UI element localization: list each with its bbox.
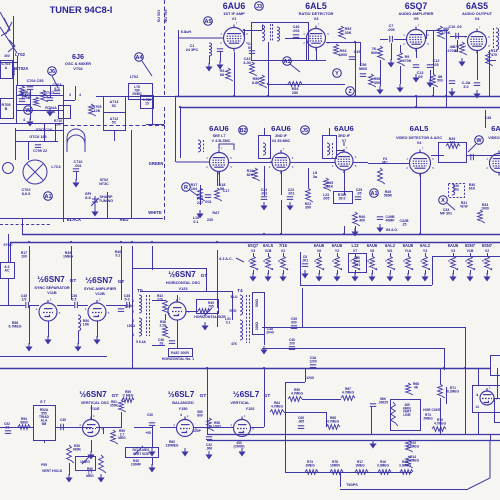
wire (96, 427, 122, 429)
wire det drop (268, 84, 270, 96)
capacitor C709 (35, 145, 41, 148)
wire right margin (497, 368, 499, 398)
svg-text:10K: 10K (83, 323, 90, 327)
svg-text:GT: GT (118, 279, 125, 285)
wire (400, 45, 402, 52)
svg-text:2040: 2040 (266, 330, 274, 334)
svg-text:39.0: 39.0 (339, 197, 346, 201)
svg-text:6SQ7: 6SQ7 (405, 1, 428, 11)
resistor R68 4K (406, 383, 413, 395)
wire horiz size drop (217, 311, 219, 327)
ground R60 (98, 474, 103, 482)
svg-text:61K: 61K (469, 187, 476, 191)
svg-text:LINE: LINE (403, 413, 410, 417)
ground V5 (413, 74, 418, 82)
svg-text:3: 3 (332, 259, 334, 263)
wire (30, 90, 32, 104)
small tube circle (3, 163, 14, 174)
wire R65 drop (326, 412, 328, 427)
svg-text:L13: L13 (351, 243, 359, 248)
junction bus x132 (131, 241, 133, 243)
wire input V1 (178, 30, 180, 96)
junction bus2 x344 (343, 233, 345, 235)
ground V11B (45, 336, 50, 344)
svg-text:4: 4 (287, 267, 289, 271)
resistor R17 (198, 188, 205, 201)
wire (446, 96, 448, 107)
heater resistor 6AU6 (451, 256, 458, 270)
svg-text:V5: V5 (414, 16, 420, 21)
svg-text:200Ω: 200Ω (255, 322, 259, 331)
svg-text:6: 6 (278, 259, 280, 263)
circled W video (475, 136, 484, 145)
box right margin (495, 399, 500, 423)
svg-text:VIDEO: VIDEO (488, 136, 500, 140)
svg-text:MC: MC (382, 161, 388, 165)
ground R7 (377, 86, 382, 94)
ground heater (467, 273, 472, 281)
svg-text:LT02: LT02 (130, 75, 138, 79)
wire (236, 258, 244, 262)
svg-text:6AL2: 6AL2 (420, 243, 431, 248)
wire B+ drop (446, 30, 448, 96)
wire left col 2 (8, 278, 10, 305)
tube pin numbers (206, 147, 232, 170)
wire (308, 168, 310, 188)
wire plate V5 (426, 30, 428, 39)
coil L30 dashed box (449, 184, 465, 198)
svg-text:.25: .25 (402, 223, 407, 227)
wire L78 down (152, 99, 154, 124)
svg-text:15: 15 (145, 102, 149, 106)
circled Z (346, 87, 355, 96)
tube Y150 (177, 417, 194, 437)
heater resistor 7/16 (281, 256, 288, 270)
svg-text:B3 A.G.: B3 A.G. (386, 228, 398, 232)
resistor R19 (253, 168, 260, 181)
bus mid3 (262, 327, 465, 329)
wire V3 cathode (316, 48, 318, 60)
wire (16, 305, 25, 307)
tube 6AU6 2nd IF (272, 150, 290, 174)
svg-text:V3: V3 (451, 249, 455, 253)
wire right (485, 110, 487, 128)
svg-text:3: 3 (429, 267, 431, 271)
capacitor C15 (474, 83, 480, 86)
svg-text:47K: 47K (231, 342, 238, 346)
capacitor C3A (310, 365, 316, 368)
svg-text:.05: .05 (357, 192, 362, 196)
capacitor C66 (370, 404, 376, 407)
core (493, 28, 495, 50)
ground heater (352, 273, 357, 281)
wire tuner bottom1 (0, 123, 63, 125)
ground C2 (217, 61, 222, 69)
wire (30, 104, 32, 120)
wire cathode V11E (91, 440, 93, 452)
ground R9 (397, 84, 402, 92)
wire (48, 321, 50, 337)
svg-text:6A: 6A (491, 124, 500, 133)
wire V3 lower (306, 60, 326, 62)
svg-text:½6SL7: ½6SL7 (233, 390, 260, 399)
tube pin numbers (165, 297, 190, 315)
svg-text:6SN7: 6SN7 (482, 243, 493, 248)
ground (26, 343, 31, 351)
svg-text:V7: V7 (353, 249, 357, 253)
svg-text:6AL2: 6AL2 (385, 243, 396, 248)
svg-text:T4: T4 (237, 288, 243, 293)
ground trimmer (92, 208, 97, 216)
svg-text:.03: .03 (159, 341, 164, 345)
svg-text:R487 200R: R487 200R (171, 351, 189, 355)
ground R58 (206, 451, 211, 459)
wire T3 bottom link (152, 345, 165, 347)
capacitor C16 (205, 195, 211, 198)
resistor R9 (398, 52, 405, 66)
tube 6J6 envelope arch (67, 135, 85, 152)
svg-text:5: 5 (257, 267, 259, 271)
ground V11E (88, 451, 93, 459)
T4 core (246, 295, 248, 343)
svg-text:SYNC: SYNC (3, 243, 13, 247)
tube V12B (88, 300, 106, 321)
circled A5 (204, 17, 213, 26)
svg-text:10K: 10K (55, 122, 62, 126)
capacitor C12 (427, 65, 433, 68)
capacitor C36 (75, 302, 78, 308)
wire mid left (0, 356, 107, 358)
svg-text:104: 104 (191, 187, 198, 191)
svg-text:2MEG: 2MEG (423, 416, 433, 420)
wire v121 (121, 246, 123, 300)
core T2 (270, 24, 272, 42)
svg-text:W1: W1 (387, 249, 392, 253)
tube V11B (39, 300, 57, 321)
svg-text:5C: 5C (112, 121, 117, 125)
wire vert osc in (0, 427, 33, 429)
wire L9 top (329, 128, 331, 135)
svg-text:3: 3 (314, 259, 316, 263)
ground tuner2 (47, 108, 52, 116)
box R708 (1, 99, 14, 119)
resistor R28 (378, 168, 385, 184)
svg-text:SU 921: SU 921 (157, 10, 161, 22)
svg-text:1MEG: 1MEG (305, 463, 315, 467)
svg-text:.001: .001 (288, 192, 295, 196)
junction bus2 x281 (280, 233, 282, 235)
wire R7 down (380, 60, 382, 86)
wire (28, 141, 30, 160)
svg-text:350: 350 (374, 81, 380, 85)
ground C24 (261, 202, 266, 210)
wire (114, 130, 116, 141)
pointer wire (290, 64, 300, 72)
svg-text:6AU6: 6AU6 (223, 1, 246, 11)
svg-text:TUNER 94C8-I: TUNER 94C8-I (50, 5, 113, 15)
svg-text:HORIZONTAL SIZE: HORIZONTAL SIZE (194, 315, 226, 319)
ground Y152 (239, 448, 244, 456)
tube pin numbers (464, 26, 490, 49)
svg-text:200: 200 (289, 341, 295, 345)
svg-text:6: 6 (272, 267, 274, 271)
svg-text:6AU6: 6AU6 (448, 243, 459, 248)
svg-text:6.3 A.C.: 6.3 A.C. (219, 257, 233, 261)
resistor R67 (341, 396, 355, 401)
junction bus x29 (28, 241, 30, 243)
wire V123 grid (177, 295, 179, 302)
svg-text:T60PS: T60PS (346, 483, 358, 487)
tube V123 (168, 299, 186, 320)
svg-text:J6: J6 (49, 69, 55, 75)
wire tuner shelf1 (16, 95, 63, 97)
bus mid1 (22, 234, 500, 236)
ground (none) (370, 440, 375, 448)
box right edge (491, 356, 500, 376)
svg-text:0.5: 0.5 (72, 298, 77, 302)
tube pin numbers (220, 22, 248, 46)
T4 secondary (240, 320, 243, 340)
svg-text:RED: RED (230, 309, 238, 313)
tube AFC (480, 388, 494, 405)
wire v29 (29, 246, 31, 302)
box T7 TRIAD (34, 406, 56, 441)
capacitor C52 (5, 431, 11, 434)
svg-text:5: 5 (412, 267, 414, 271)
ground heater (484, 273, 489, 281)
resistor R40 (353, 212, 360, 226)
junction bus top x433 (432, 95, 434, 97)
svg-text:3: 3 (465, 259, 467, 263)
capacitor C38 (127, 302, 130, 308)
wire 2nd IF drop (281, 200, 283, 234)
svg-text:J5: J5 (302, 128, 308, 134)
wire OT (487, 60, 496, 62)
svg-text:3: 3 (323, 267, 325, 271)
wire (107, 192, 109, 218)
resistor R10 (438, 26, 445, 39)
wire R9 down (400, 66, 402, 84)
svg-text:V12B: V12B (95, 292, 105, 296)
wire plate V1 (244, 30, 246, 38)
wire 6J6 grid (63, 100, 75, 102)
svg-text:4K: 4K (414, 385, 419, 389)
resistor R64 (270, 410, 284, 415)
peaking coil R29 (446, 144, 460, 149)
wire Z drop (355, 42, 357, 96)
svg-text:6.8uH: 6.8uH (181, 30, 191, 34)
wire bottom (340, 489, 468, 491)
wire (478, 368, 480, 385)
coil R50 choke (78, 315, 81, 331)
wire det out (326, 42, 360, 44)
antenna zig (8, 40, 15, 52)
pointer (190, 190, 198, 196)
svg-text:4.7MEG: 4.7MEG (342, 390, 355, 394)
svg-text:V4 39.6MC: V4 39.6MC (272, 139, 291, 143)
junction (267, 83, 269, 85)
ground R40 (352, 228, 357, 236)
junction y368 x465 (464, 367, 466, 369)
tube pin numbers (403, 24, 429, 47)
svg-text:10M00: 10M00 (330, 463, 340, 467)
svg-text:1200: 1200 (309, 359, 317, 363)
ground C22 (287, 202, 292, 210)
wire (264, 130, 266, 135)
wire Y drop (355, 84, 357, 96)
wire T4 right (264, 292, 266, 345)
tube pin numbers (230, 414, 254, 431)
wire (97, 321, 99, 337)
pointer W (468, 144, 476, 152)
junction bus top x416 (415, 95, 417, 97)
svg-text:.001: .001 (74, 164, 81, 168)
wire R64 link (284, 412, 326, 414)
svg-text:6AU6: 6AU6 (367, 243, 378, 248)
svg-text:C MEG: C MEG (123, 393, 134, 397)
resistor R48 (163, 326, 170, 338)
resistor RT03 (41, 90, 48, 102)
svg-text:A4: A4 (135, 55, 143, 61)
tube video amp clipped (490, 151, 500, 176)
wire (264, 128, 266, 135)
svg-text:C17: C17 (223, 189, 230, 193)
ground C8 (302, 270, 307, 278)
box L13 (349, 254, 367, 273)
wire (134, 427, 152, 429)
svg-text:V1B: V1B (265, 249, 272, 253)
wire cathode V1 (234, 52, 236, 92)
resistor R59 (111, 430, 118, 444)
bus B+ left drop (175, 97, 177, 162)
resistor R58 (207, 418, 214, 431)
wire (209, 56, 211, 64)
wiper arrow vert size (134, 446, 143, 455)
wire v285 (285, 382, 287, 472)
capacitor C8 (302, 264, 308, 267)
bus y434 (207, 434, 500, 436)
svg-text:V6: V6 (317, 249, 321, 253)
svg-text:130MEG: 130MEG (165, 443, 178, 447)
capacitor C24 (261, 197, 267, 200)
heater bus right (432, 256, 434, 285)
resistor R52 33K (339, 26, 346, 39)
junction y368 x264 (263, 367, 265, 369)
svg-text:10K: 10K (94, 109, 101, 113)
heater resistor 6AU6 (406, 256, 413, 270)
wire plate V11E (91, 405, 93, 419)
wire osc link2 (55, 123, 57, 141)
svg-text:6AL5: 6AL5 (410, 124, 430, 133)
resistor R22 (306, 188, 313, 202)
bus AVC (180, 107, 500, 109)
capacitor C703 (54, 91, 60, 94)
wire (15, 128, 17, 160)
svg-text:4.7MEG: 4.7MEG (327, 419, 340, 423)
svg-text:Y3: Y3 (423, 249, 427, 253)
svg-text:R: R (184, 185, 188, 191)
capacitor C39 (291, 326, 297, 329)
coil L9 (327, 143, 330, 155)
svg-text:6AU6: 6AU6 (334, 124, 354, 133)
circled X (439, 196, 448, 205)
wire T60PS drop (340, 472, 342, 487)
wire (457, 40, 459, 52)
svg-text:4: 4 (457, 267, 459, 271)
pointer X (447, 203, 455, 210)
svg-text:BLACK: BLACK (67, 217, 82, 222)
svg-text:X: X (441, 198, 445, 204)
svg-text:500: 500 (371, 51, 377, 55)
dashed boundary lower (164, 125, 166, 222)
wire T3 to grid (152, 300, 166, 302)
antenna lead 2 (0, 12, 10, 30)
transformer T2 secondary (277, 27, 280, 41)
circled A1 IF (370, 189, 379, 198)
wire into C45 (0, 305, 16, 307)
wire IF link1 (228, 162, 272, 164)
svg-text:+95: +95 (145, 431, 151, 435)
svg-text:8-6.5: 8-6.5 (22, 192, 31, 196)
wire v217 (217, 172, 219, 186)
svg-text:500: 500 (437, 78, 443, 82)
svg-text:24 3PC: 24 3PC (186, 48, 199, 52)
svg-text:5-3: 5-3 (54, 87, 59, 91)
coil L6 (263, 143, 266, 155)
resistor R705 (89, 104, 96, 116)
heater resistor 6SN7 (485, 256, 492, 270)
circled Y (333, 69, 342, 78)
wiper arrow vert hold (82, 456, 90, 464)
svg-text:BLU: BLU (231, 295, 238, 299)
wire IF link3 (353, 162, 368, 164)
junction bus top x234 (233, 95, 235, 97)
svg-text:3: 3 (263, 259, 265, 263)
svg-text:5: 5 (474, 267, 476, 271)
svg-text:Y152: Y152 (246, 407, 255, 411)
tube 6AU6 sound IF (210, 150, 229, 175)
svg-text:SYNC SEPARATOR: SYNC SEPARATOR (34, 286, 69, 290)
resistor R55 (288, 397, 302, 402)
svg-text:B2: B2 (239, 128, 246, 134)
capacitor C37 (118, 309, 124, 312)
svg-text:Y1A: Y1A (405, 249, 412, 253)
svg-text:HORIZONTAL No. 1: HORIZONTAL No. 1 (162, 357, 194, 361)
svg-text:.00025: .00025 (378, 400, 388, 404)
box L28 (439, 143, 467, 163)
wire v132 long (132, 246, 134, 368)
svg-text:300: 300 (4, 54, 10, 58)
svg-text:V2: V2 (281, 249, 285, 253)
T3 secondary (139, 318, 142, 336)
heater bus upper right (432, 256, 500, 258)
tuner input box (1, 61, 13, 79)
svg-text:0.2: 0.2 (116, 254, 121, 258)
svg-text:82K: 82K (247, 173, 254, 177)
svg-text:5-3: 5-3 (124, 298, 129, 302)
dashed divider segment (164, 107, 166, 125)
svg-text:SYNC AMPLIFIER: SYNC AMPLIFIER (84, 287, 117, 291)
T4 primary (240, 295, 243, 315)
wire C7 down (391, 43, 393, 60)
wire v305 (305, 368, 307, 382)
circled A1 det (283, 57, 292, 66)
resistor R49 (250, 62, 257, 76)
wire C12 down (430, 70, 432, 80)
svg-text:33K: 33K (345, 31, 352, 35)
wire grid 6J6 (75, 86, 77, 100)
wiper arrow horiz size (204, 308, 212, 316)
